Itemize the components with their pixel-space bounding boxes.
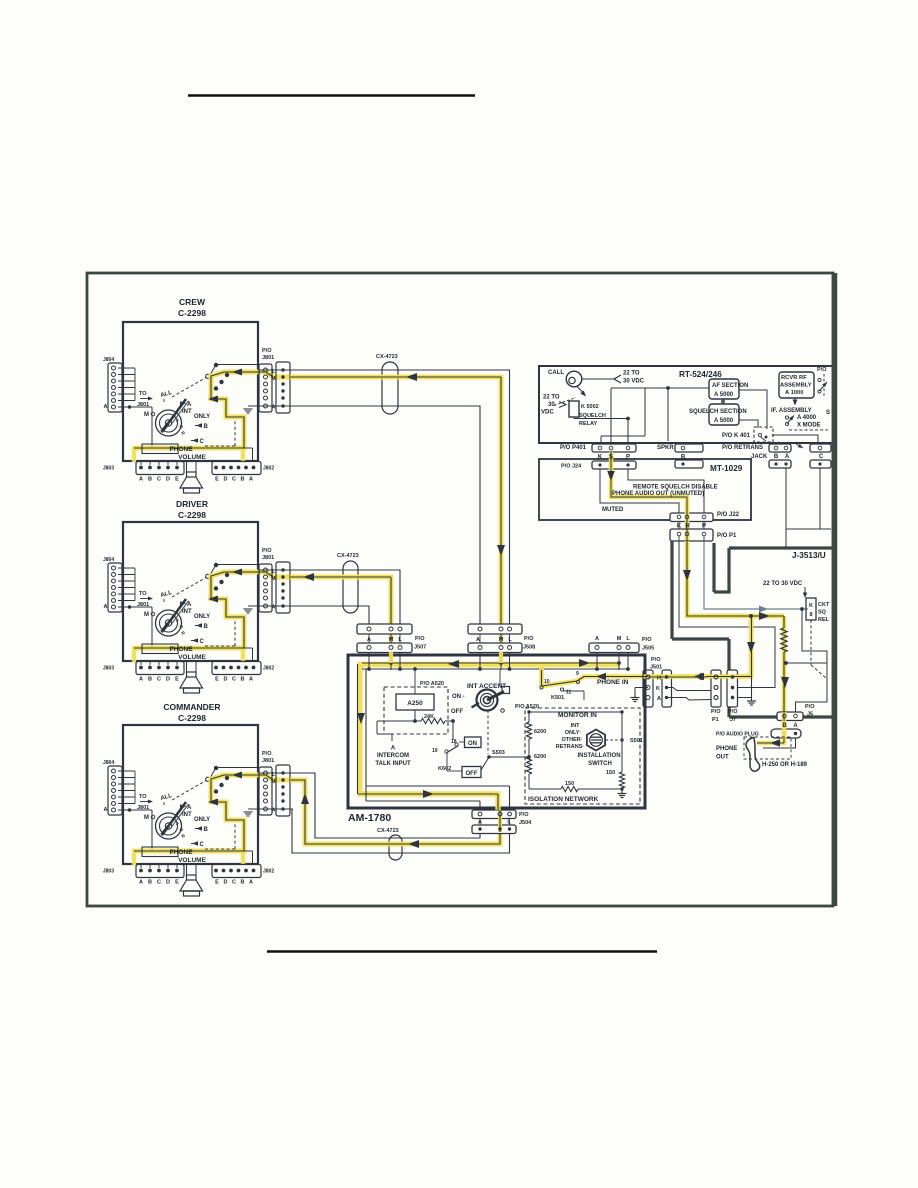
svg-text:P/O K 401: P/O K 401 (722, 433, 751, 439)
svg-text:PHONE AUDIO OUT (UNMUTED): PHONE AUDIO OUT (UNMUTED) (612, 491, 704, 497)
wire commander J801-A to J504-L (290, 809, 510, 853)
svg-text:J-3513/U: J-3513/U (792, 551, 826, 560)
svg-text:A: A (793, 723, 798, 729)
INTERCOM TALK INPUT terminal (376, 721, 378, 734)
svg-text:P/O: P/O (642, 637, 652, 643)
svg-text:K: K (656, 686, 660, 692)
wire phone audio out unmuted (S, yellow) (611, 452, 687, 544)
interconnecting box J-3513/U outline (729, 546, 833, 549)
intercom control CREW C-2298 (103, 297, 293, 493)
svg-text:INSTALLATION: INSTALLATION (577, 753, 620, 759)
svg-text:COMMANDER: COMMANDER (163, 702, 220, 712)
svg-text:CALL: CALL (548, 370, 564, 376)
svg-text:K 5002: K 5002 (581, 404, 599, 410)
resistors 150 and right column (621, 712, 623, 772)
wire to AF section (611, 387, 709, 389)
junction dots on buses (389, 661, 393, 665)
svg-text:CX-4723: CX-4723 (337, 553, 359, 559)
svg-text:S501: S501 (630, 738, 643, 744)
svg-text:ON: ON (468, 741, 477, 747)
handset H-250 phone out (yellow) (757, 721, 784, 743)
svg-text:30 VDC: 30 VDC (623, 379, 645, 385)
svg-text:150: 150 (606, 770, 615, 776)
svg-text:P1: P1 (712, 717, 719, 723)
svg-text:J507: J507 (414, 645, 426, 651)
call switch arm (577, 387, 583, 393)
svg-text:22 TO: 22 TO (623, 371, 640, 377)
svg-text:L: L (398, 637, 402, 643)
svg-text:J508: J508 (523, 645, 535, 651)
svg-text:X MODE: X MODE (797, 423, 821, 429)
svg-text:ISOLATION NETWORK: ISOLATION NETWORK (528, 796, 599, 803)
SQUELCH SECTION A5000 (709, 404, 739, 425)
svg-text:A 4000: A 4000 (797, 415, 817, 421)
wires retrans jack to J-3513 (785, 468, 787, 548)
svg-text:K: K (809, 603, 813, 609)
svg-text:K501: K501 (551, 695, 564, 701)
wire driver J801-M to J507-M (yellow) (290, 577, 391, 624)
svg-text:CKT: CKT (818, 602, 830, 608)
svg-text:RETRANS·: RETRANS· (556, 744, 585, 750)
wire commander J801-M to J504-M (yellow) (290, 780, 500, 844)
svg-text:C-2298: C-2298 (178, 713, 206, 723)
svg-text:OUT: OUT (716, 755, 729, 761)
svg-text:B: B (774, 454, 779, 460)
svg-text:ON -: ON - (452, 694, 465, 700)
svg-text:CX-4723: CX-4723 (376, 354, 398, 360)
wires J501 pair to P1/J7 pair (667, 688, 712, 691)
handset icon (746, 738, 760, 772)
wire tap at resistor bottom (786, 662, 827, 664)
wire muted (K) (600, 469, 679, 514)
svg-text:P/O J22: P/O J22 (717, 512, 740, 518)
svg-text:K: K (598, 455, 603, 461)
svg-text:6200: 6200 (534, 729, 546, 735)
svg-text:6200: 6200 (534, 754, 546, 760)
wire crew J801-M to J508-M (yellow) (290, 377, 501, 624)
svg-text:A 5000: A 5000 (714, 418, 734, 424)
receiver-transmitter RT-524/246 box (539, 366, 833, 443)
svg-text:B: B (782, 723, 787, 729)
svg-text:OFF: OFF (466, 771, 478, 777)
svg-text:MUTED: MUTED (602, 507, 624, 513)
svg-text:S: S (609, 455, 613, 461)
intercom control COMMANDER C-2298 (103, 702, 293, 896)
svg-text:P/O RETRANS: P/O RETRANS (722, 445, 763, 451)
svg-text:H: H (657, 676, 661, 682)
ground at J501 (635, 687, 648, 689)
svg-text:RELAY: RELAY (579, 421, 597, 427)
connector P/O P1 (670, 529, 713, 541)
resistors 6200 (left column) (528, 712, 530, 722)
wire crew J801-A to J508-A (290, 406, 480, 624)
wire crew J801-L to J508-L (290, 370, 510, 624)
svg-text:P/O: P/O (651, 657, 661, 663)
svg-text:H-250 OR H-189: H-250 OR H-189 (762, 762, 808, 768)
wire interior lower bus to J504 (366, 785, 510, 787)
svg-text:A 5000: A 5000 (714, 392, 734, 398)
svg-text:ASSEMBLY: ASSEMBLY (780, 383, 812, 389)
svg-text:P/O P1: P/O P1 (717, 533, 737, 539)
svg-text:9: 9 (576, 671, 579, 677)
svg-text:L: L (508, 637, 512, 643)
svg-text:INT: INT (571, 723, 581, 729)
svg-text:OFF: OFF (451, 709, 463, 715)
svg-text:J505: J505 (642, 646, 654, 652)
wires relay to P401 pins (573, 417, 575, 419)
svg-text:8: 8 (809, 612, 812, 618)
wire J507/J508/J505 pins into bus (368, 652, 370, 670)
svg-text:OTHER·: OTHER· (561, 737, 582, 743)
svg-text:SQ: SQ (818, 610, 827, 616)
jack spring symbol (796, 444, 803, 448)
svg-text:18: 18 (451, 739, 457, 745)
svg-text:ONLY·: ONLY· (565, 730, 582, 736)
svg-text:S: S (826, 410, 830, 416)
svg-text:M: M (389, 637, 394, 643)
svg-text:P/O: P/O (519, 812, 529, 818)
svg-text:C: C (819, 454, 824, 460)
outer diagram frame (87, 273, 833, 906)
svg-text:A: A (478, 820, 482, 826)
svg-text:SPKR: SPKR (657, 445, 674, 451)
svg-text:P/O: P/O (805, 704, 815, 710)
svg-text:P/O J24: P/O J24 (561, 464, 582, 470)
svg-text:A: A (657, 696, 661, 702)
connector P/O J5 (777, 712, 803, 721)
svg-text:P/O: P/O (728, 709, 738, 715)
svg-text:150: 150 (565, 781, 574, 787)
wire interior top audio bus (yellow) (360, 665, 620, 811)
svg-text:MT-1029: MT-1029 (710, 464, 743, 473)
svg-text:VDC: VDC (541, 410, 554, 416)
wire P1-H phone audio (yellow) (687, 541, 784, 616)
svg-text:P/O: P/O (711, 709, 721, 715)
svg-text:REMOTE SQUELCH DISABLE: REMOTE SQUELCH DISABLE (633, 485, 718, 491)
svg-text:A: A (476, 637, 480, 643)
svg-text:RCVR RF: RCVR RF (781, 375, 807, 381)
svg-text:M: M (617, 636, 622, 642)
svg-text:P/O A520: P/O A520 (420, 681, 444, 687)
svg-text:P: P (626, 455, 630, 461)
wire P1-P to CKT SQ relay (gray) (704, 541, 808, 609)
svg-text:A: A (785, 454, 790, 460)
relay K501 / PHONE IN tap (yellow) (542, 667, 649, 686)
svg-text:IF. ASSEMBLY: IF. ASSEMBLY (771, 408, 812, 414)
svg-text:AF SECTION: AF SECTION (712, 383, 748, 389)
wire remote squelch disable (P) (628, 469, 704, 514)
connectors P/O P1 and P/O J7 (711, 670, 721, 707)
svg-text:P/O: P/O (524, 636, 534, 642)
svg-text:SWITCH: SWITCH (588, 761, 612, 767)
switch S503 wire (481, 757, 529, 770)
connector P/O J507 (389, 634, 393, 643)
RCVR RF ASSEMBLY A1000 (779, 372, 814, 398)
frame inner right edge (832, 273, 838, 906)
top rule line (188, 94, 475, 97)
svg-text:C-2298: C-2298 (178, 308, 206, 318)
svg-text:RT-524/246: RT-524/246 (679, 370, 722, 379)
wire relay to J5-A (796, 609, 828, 716)
svg-text:A: A (391, 746, 396, 752)
svg-text:DRIVER: DRIVER (176, 499, 208, 509)
svg-text:PHONE: PHONE (716, 746, 737, 752)
svg-text:A: A (367, 637, 371, 643)
svg-text:CX-4723: CX-4723 (377, 828, 399, 834)
svg-text:JACK: JACK (751, 454, 768, 460)
svg-text:M: M (499, 637, 504, 643)
svg-text:19: 19 (432, 748, 438, 754)
AF SECTION A5000 (709, 379, 739, 399)
bottom rule line (267, 950, 657, 953)
svg-text:A250: A250 (407, 700, 423, 707)
svg-text:10: 10 (544, 679, 550, 685)
svg-text:TALK INPUT: TALK INPUT (375, 761, 411, 767)
svg-text:SQUELCH SECTION: SQUELCH SECTION (689, 409, 747, 415)
svg-text:J7: J7 (730, 717, 736, 723)
connector C (810, 444, 831, 452)
svg-text:22 TO: 22 TO (543, 395, 560, 401)
svg-text:J504: J504 (519, 820, 532, 826)
svg-text:P/O: P/O (817, 367, 827, 373)
svg-text:S503: S503 (492, 750, 505, 756)
svg-text:A: A (595, 636, 599, 642)
svg-text:PHONE IN: PHONE IN (597, 679, 629, 686)
module P/O A520 (A250 intercom accent) (384, 687, 448, 734)
connector P/O J508 (499, 634, 503, 643)
svg-text:P/O A520: P/O A520 (515, 704, 539, 710)
svg-text:CREW: CREW (179, 297, 206, 307)
svg-text:A 1000: A 1000 (785, 390, 803, 396)
svg-text:P/O: P/O (415, 636, 425, 642)
svg-text:J5: J5 (807, 712, 813, 718)
mount MT-1029 box (539, 459, 751, 520)
wire commander J801-L to J504-A (290, 773, 480, 838)
connector P/O J504 (472, 810, 516, 819)
svg-text:22 TO 30 VDC: 22 TO 30 VDC (763, 581, 803, 587)
intercom control DRIVER C-2298 (103, 499, 293, 693)
svg-text:11: 11 (566, 690, 572, 696)
svg-text:L: L (626, 636, 630, 642)
wire driver J801-L to J507-L (290, 570, 400, 624)
svg-text:MONITOR IN: MONITOR IN (558, 712, 597, 719)
svg-text:C-2298: C-2298 (178, 510, 206, 520)
svg-text:INTERCOM: INTERCOM (377, 753, 409, 759)
svg-text:REL: REL (818, 617, 830, 623)
wire driver J801-A to J507-A (290, 606, 369, 624)
dashed squelch link (811, 665, 826, 678)
svg-text:P/O P401: P/O P401 (560, 445, 587, 451)
resistor on B line (783, 616, 785, 628)
amplifier AM-1780 box (348, 655, 645, 808)
connector P/O J505 (589, 643, 639, 653)
wires to P/O K401 (739, 390, 767, 429)
connector P/O J22 (670, 513, 713, 522)
wire P1-K down around to J7-K (679, 541, 775, 688)
relay K602 with ON/OFF (452, 721, 454, 740)
svg-text:AM-1780: AM-1780 (348, 812, 391, 824)
isolation network P/O A520 (525, 708, 640, 804)
wire 22-30VDC to call (583, 378, 615, 380)
